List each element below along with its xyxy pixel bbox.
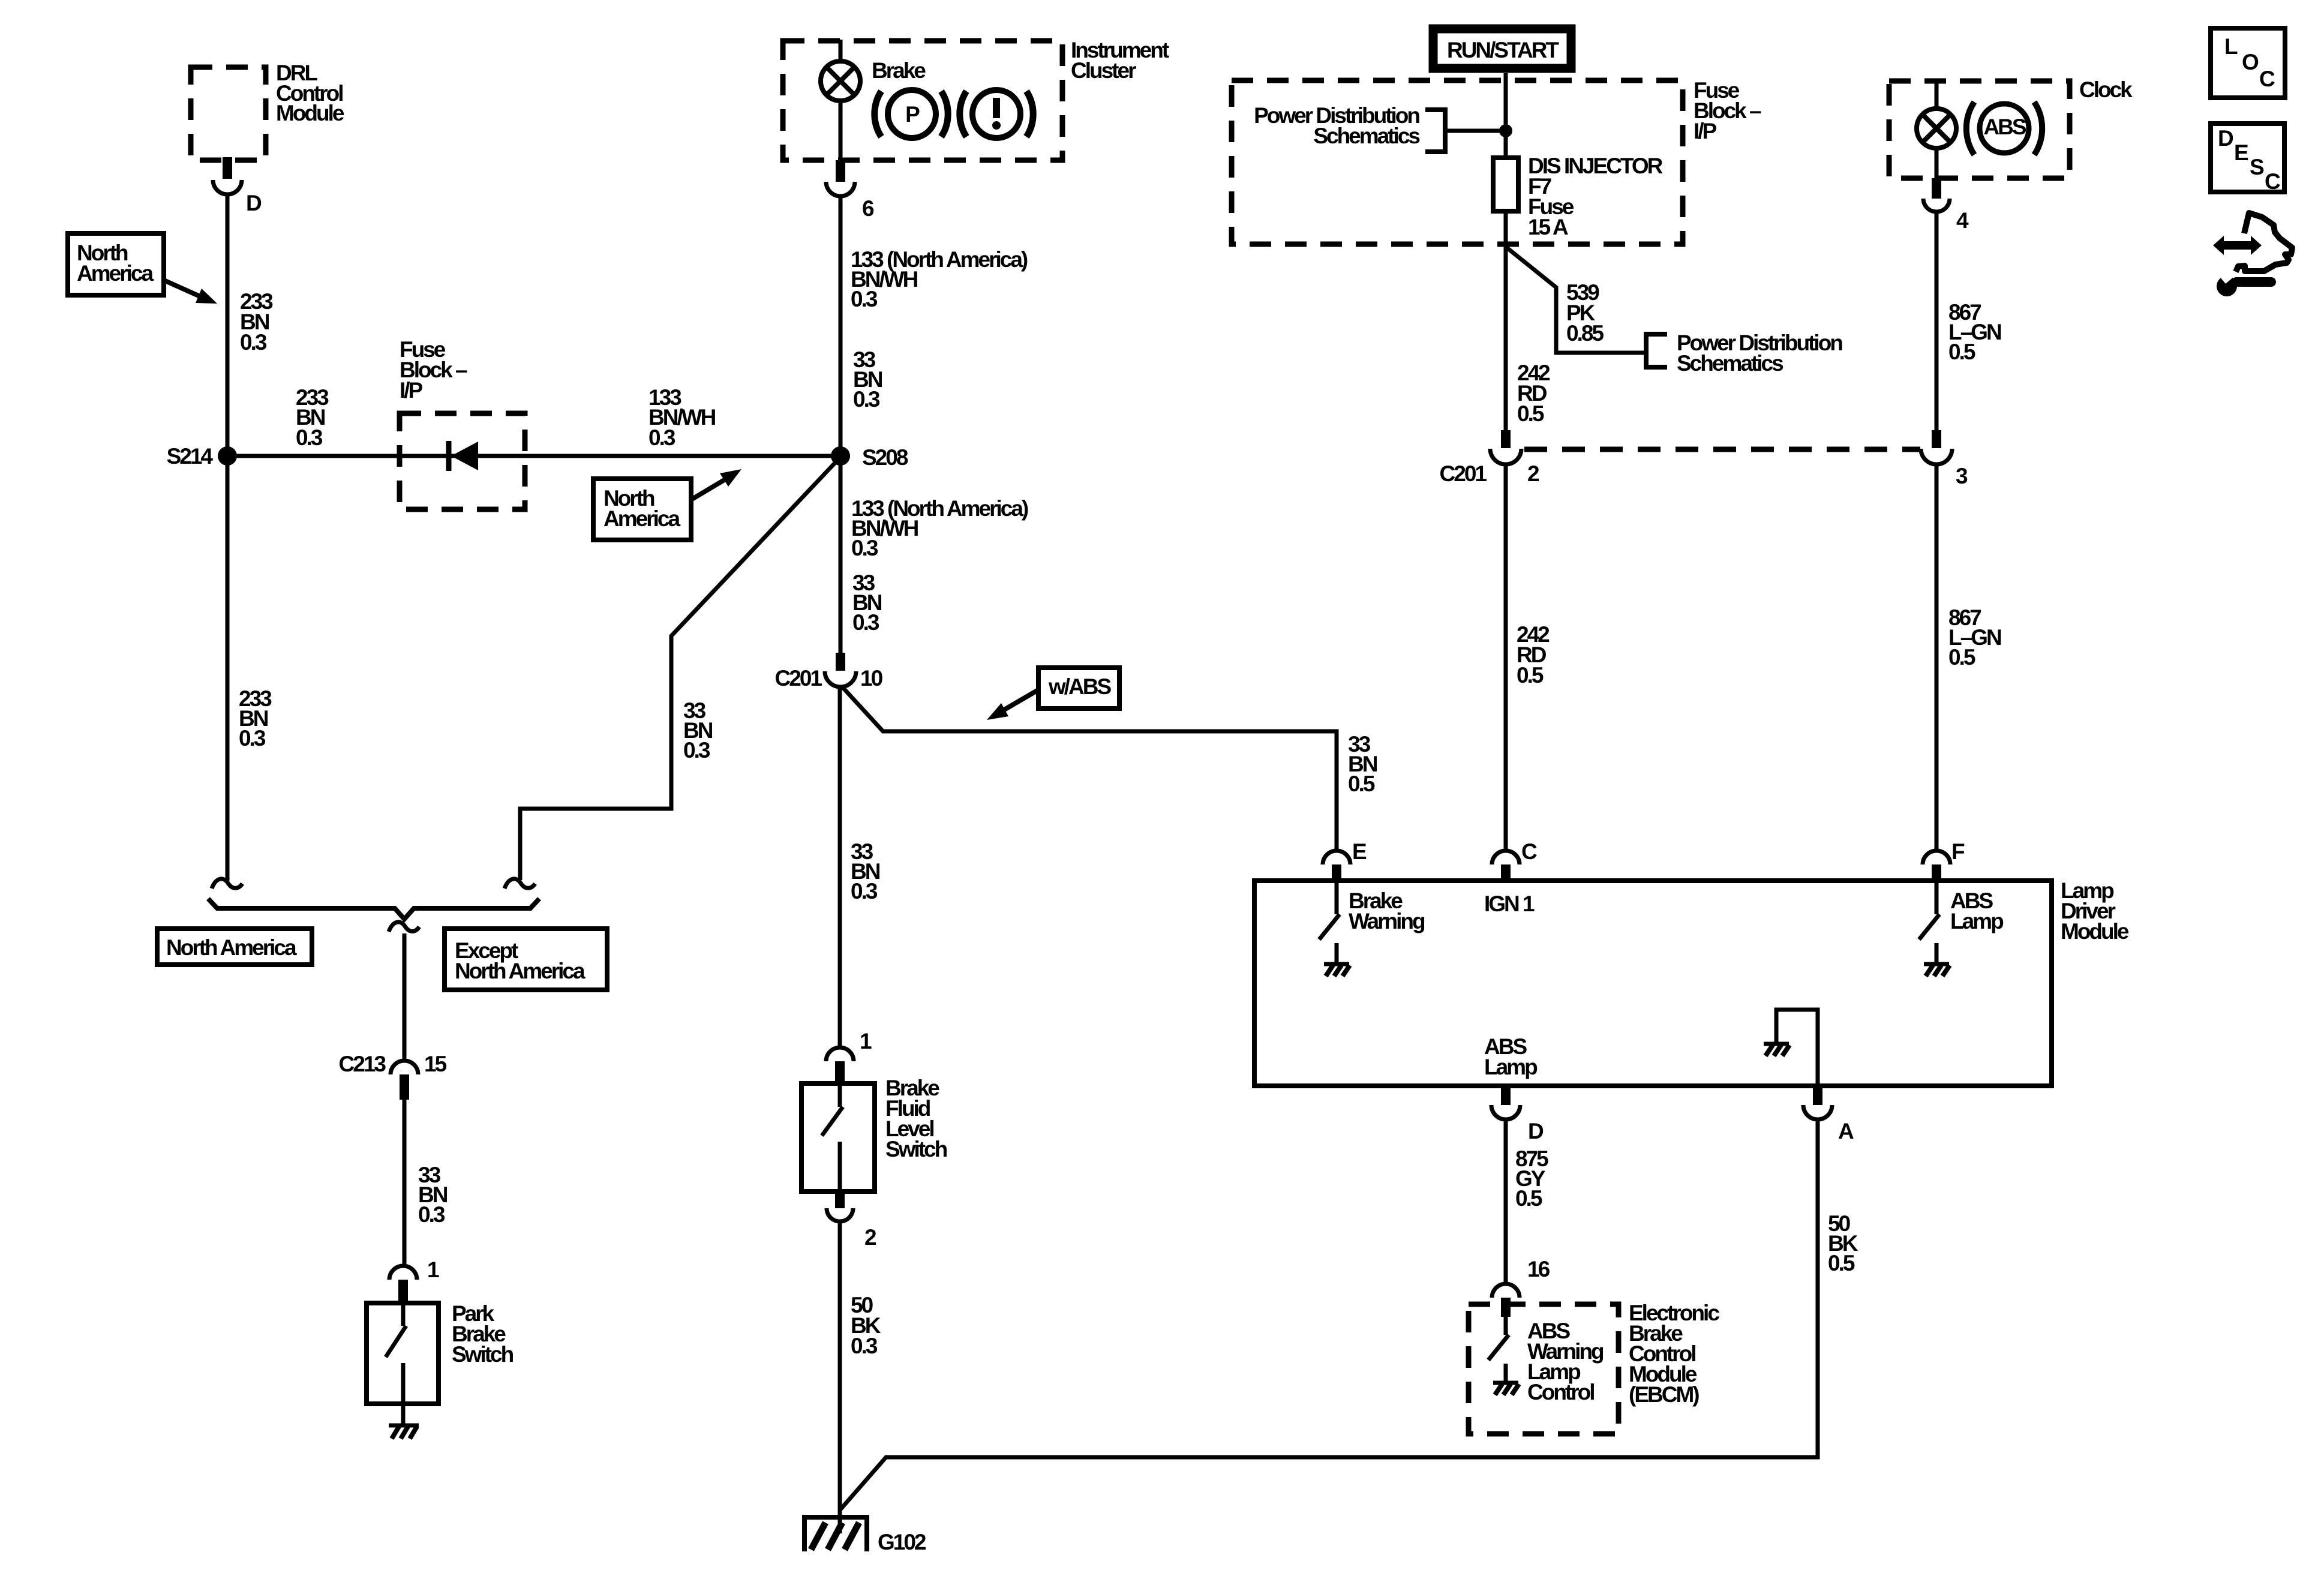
wire: D down to EBCM pin 16: [1504, 1119, 1508, 1284]
svg-text:C201: C201: [1440, 461, 1487, 486]
svg-text:0.3: 0.3: [648, 425, 675, 450]
wire: pin 6 down to S208: [839, 196, 843, 456]
internal ground branch (A output, inside LDM): [1764, 1010, 1818, 1085]
Except North America box: [445, 929, 607, 990]
svg-text:0.3: 0.3: [853, 387, 880, 412]
ground (Brake Warning, inside LDM): [1324, 964, 1350, 976]
svg-text:Switch: Switch: [452, 1342, 514, 1367]
svg-text:I/P: I/P: [400, 378, 423, 403]
svg-text:E: E: [2234, 140, 2248, 165]
wire: clock top stub to lamp: [1935, 80, 1939, 110]
wire: lamp to cluster box bottom: [839, 100, 843, 160]
connector C201 pin 2: [1440, 430, 1539, 486]
DRL Control Module: [191, 61, 344, 160]
wire: pin 4 down to connector 3: [1935, 212, 1939, 430]
connector E (Lamp Driver Module): [1323, 839, 1367, 882]
wire: RUN/START down into fuse block: [1504, 73, 1508, 158]
wire: cluster top stub to Brake lamp: [839, 40, 843, 62]
splice brace (options merge): [208, 899, 539, 919]
svg-text:C: C: [1521, 839, 1537, 864]
svg-text:Schematics: Schematics: [1677, 351, 1783, 376]
label 242 RD 0.5 (below C201): [1517, 622, 1550, 688]
label 875 GY 0.5: [1515, 1146, 1548, 1211]
svg-text:0.5: 0.5: [1948, 645, 1975, 670]
wire: pin 2 down to G102: [838, 1221, 842, 1533]
ground (Park Brake Switch): [389, 1404, 419, 1439]
svg-text:S: S: [2250, 155, 2264, 179]
svg-text:Cluster: Cluster: [1071, 58, 1136, 83]
svg-text:North America: North America: [455, 959, 585, 983]
svg-text:16: 16: [1527, 1257, 1550, 1281]
wire: A down and across to G102: [840, 1119, 1818, 1509]
Instrument Cluster: [783, 38, 1169, 160]
wire: C201 pin 10 down to Brake Fluid Level Switch: [838, 687, 842, 1047]
svg-text:D: D: [1528, 1119, 1544, 1143]
wire: S214 to S208: [227, 454, 840, 458]
svg-text:RUN/START: RUN/START: [1447, 38, 1559, 62]
connector C201 pin 10: [775, 653, 883, 691]
connector C (Lamp Driver Module): [1492, 839, 1537, 882]
svg-text:0.5: 0.5: [1517, 401, 1544, 426]
svg-text:0.3: 0.3: [852, 610, 879, 635]
svg-text:0.3: 0.3: [851, 1334, 878, 1358]
svg-text:Lamp: Lamp: [1950, 909, 2004, 933]
svg-text:15: 15: [424, 1052, 447, 1076]
svg-text:Switch: Switch: [885, 1137, 947, 1161]
wire: C213 to Park Brake Switch: [403, 1100, 407, 1266]
park brake indicator icon (P): [875, 90, 948, 138]
label 33 BN 0.3 (diagonal branch): [683, 698, 713, 763]
DESC reference box: [2211, 124, 2284, 194]
w/ABS callout: [987, 668, 1119, 720]
svg-text:0.85: 0.85: [1566, 321, 1604, 346]
Lamp Driver Module: [1254, 878, 2129, 1086]
Power Distribution Schematics reference (left): [1254, 103, 1512, 154]
svg-text:S208: S208: [862, 445, 908, 470]
vehicle navigation icon (arrow, car outline, wrench): [2213, 213, 2292, 296]
svg-text:0.5: 0.5: [1948, 340, 1975, 364]
Brake Warning switch (inside LDM): [1319, 882, 1425, 964]
connector D (Lamp Driver Module): [1491, 1086, 1544, 1143]
svg-text:0.3: 0.3: [240, 330, 267, 355]
svg-text:0.3: 0.3: [851, 536, 878, 560]
wire: fuse down to C201 pin 2: [1504, 211, 1508, 430]
svg-text:1: 1: [860, 1029, 872, 1053]
node S208 (splice): [831, 445, 908, 470]
svg-text:0.5: 0.5: [1828, 1251, 1855, 1275]
svg-text:Warning: Warning: [1349, 909, 1425, 933]
svg-text:0.3: 0.3: [851, 287, 878, 311]
svg-text:America: America: [77, 261, 154, 286]
svg-text:Module: Module: [2061, 919, 2129, 944]
Brake indicator lamp: [821, 58, 926, 101]
svg-text:D: D: [2218, 126, 2233, 151]
svg-text:(EBCM): (EBCM): [1629, 1382, 1699, 1407]
C201 harness dashed interconnect line: [1524, 447, 1920, 452]
label 233 BN 0.3 (DRL wire): [240, 289, 273, 355]
svg-text:ABS: ABS: [1983, 115, 2026, 139]
wire: S208 down to C201 pin 10: [839, 456, 843, 653]
svg-text:0.3: 0.3: [851, 879, 878, 903]
Clock: [1889, 77, 2133, 178]
svg-text:P: P: [905, 102, 920, 127]
connector pin 6 (Instrument Cluster): [826, 160, 874, 221]
connector pin 16 (EBCM): [1492, 1257, 1550, 1317]
label 50 BK 0.5: [1828, 1211, 1858, 1275]
brake fluid level switch contacts: [822, 1085, 843, 1191]
svg-text:G102: G102: [878, 1530, 926, 1554]
connector pin 1 (Brake Fluid Level Switch): [826, 1029, 872, 1085]
squiggle below brace: [389, 922, 419, 932]
ABS Warning Lamp Control switch (inside EBCM): [1488, 1316, 1604, 1404]
svg-text:3: 3: [1956, 464, 1968, 488]
svg-text:10: 10: [860, 666, 883, 691]
brake warning indicator icon (!): [960, 90, 1033, 138]
svg-text:0.3: 0.3: [418, 1202, 445, 1227]
connector C213 pin 15: [339, 1052, 447, 1100]
svg-text:L: L: [2224, 34, 2238, 59]
ground G102: [802, 1517, 926, 1554]
svg-text:C213: C213: [339, 1052, 386, 1076]
label 242 RD 0.5 (above C201): [1517, 361, 1550, 426]
svg-text:Control: Control: [1527, 1380, 1594, 1404]
svg-text:S214: S214: [167, 444, 214, 469]
North America callout (upper left): [68, 233, 217, 304]
ground (ABS Lamp, inside LDM): [1924, 964, 1950, 976]
node S214 (splice): [167, 444, 237, 469]
connector F (Lamp Driver Module): [1923, 839, 1965, 882]
svg-text:15 A: 15 A: [1528, 215, 1568, 239]
label 867 L-GN 0.5 (above connector 3): [1948, 300, 2001, 364]
Electronic Brake Control Module (EBCM) dashed box: [1469, 1301, 1719, 1434]
label 33 BN 0.3 (brake fluid wire): [851, 839, 880, 903]
svg-text:0.3: 0.3: [683, 738, 710, 763]
svg-text:I/P: I/P: [1694, 119, 1717, 143]
svg-text:0.3: 0.3: [296, 425, 323, 450]
svg-text:1: 1: [427, 1257, 439, 1282]
wire: lamp to clock box bottom: [1935, 147, 1939, 178]
label 33 BN 0.3 (above S208): [853, 347, 882, 412]
svg-text:C201: C201: [775, 666, 822, 691]
North America callout (pointing to S208): [593, 469, 741, 540]
clock ABS lamp: [1917, 109, 1956, 148]
Power Distribution Schematics reference (right): [1646, 331, 1842, 376]
svg-text:North America: North America: [166, 935, 297, 960]
ABS indicator icon (clock): [1966, 102, 2042, 155]
RUN/START power feed box: [1433, 29, 1571, 68]
svg-text:C: C: [2265, 169, 2280, 194]
Fuse Block - I/P (diode box): [400, 337, 525, 509]
diode (inside fuse block): [449, 441, 478, 471]
Park Brake Switch: [367, 1301, 514, 1404]
svg-text:2: 2: [864, 1225, 876, 1250]
label 33 BN 0.3 (below S208): [852, 571, 882, 635]
svg-text:2: 2: [1527, 461, 1539, 486]
Fuse Block - I/P (large): [1232, 78, 1761, 244]
connector D (DRL Control Module pin D): [213, 157, 262, 215]
label 233 BN 0.3 (S214 wire): [296, 385, 329, 450]
wire end squiggle (left, North America): [212, 879, 242, 888]
svg-text:O: O: [2242, 50, 2259, 74]
label 539 PK 0.85: [1566, 280, 1604, 346]
svg-text:IGN 1: IGN 1: [1484, 891, 1535, 916]
svg-text:0.3: 0.3: [239, 726, 266, 751]
label 867 L-GN 0.5 (below connector 3): [1948, 605, 2001, 670]
ABS Lamp output label (inside LDM bottom): [1484, 1034, 1538, 1079]
svg-text:E: E: [1352, 839, 1367, 864]
wire: brace to C213: [403, 933, 407, 1061]
wire: C201 pin 2 down to connector C: [1504, 464, 1508, 851]
wire: w/ABS branch from C201 pin 10 to connector E: [842, 686, 1337, 851]
LOC reference box: [2211, 28, 2285, 98]
svg-text:Lamp: Lamp: [1484, 1055, 1538, 1079]
svg-text:D: D: [246, 191, 262, 215]
connector pin 4 (Clock): [1923, 178, 1969, 233]
label 133 BN/WH 0.3 (between fuse block and S208): [648, 385, 716, 450]
svg-text:Module: Module: [276, 101, 344, 125]
svg-text:Clock: Clock: [2079, 77, 2133, 102]
fuse F7 DIS INJECTOR 15 A: [1493, 154, 1663, 239]
North America box (bottom): [157, 929, 312, 965]
label 133 (North America) BN/WH 0.3 (below S208): [851, 496, 1028, 560]
wire: 539 PK branch to Power Distribution Schematics: [1507, 248, 1646, 353]
label 233 BN 0.3 (below S214): [239, 686, 272, 751]
wire: DRL pin D down to S214 and below (233 BN circuit): [226, 194, 230, 881]
connector pin 2 (Brake Fluid Level Switch): [827, 1191, 876, 1250]
svg-text:0.5: 0.5: [1517, 663, 1544, 688]
label 50 BK 0.3: [851, 1293, 881, 1358]
label 133 (North America) BN/WH 0.3 (above S208): [851, 247, 1028, 311]
park brake switch contacts: [386, 1305, 406, 1404]
connector A (Lamp Driver Module): [1803, 1086, 1854, 1143]
svg-text:Brake: Brake: [872, 58, 926, 83]
wire end squiggle (right, Except North America): [505, 879, 535, 888]
label 33 BN 0.3 (park brake wire): [418, 1163, 448, 1227]
ABS Lamp switch (inside LDM): [1919, 882, 2004, 964]
svg-text:0.5: 0.5: [1515, 1186, 1542, 1211]
svg-text:w/ABS: w/ABS: [1048, 674, 1112, 699]
svg-text:6: 6: [862, 196, 874, 221]
svg-text:America: America: [603, 506, 680, 531]
wire: S208 diagonal down-left branch (Except North America path): [520, 457, 840, 880]
connector pin 3 (C201): [1921, 430, 1968, 488]
wire: connector 3 down to connector F: [1935, 464, 1939, 851]
svg-text:F: F: [1951, 839, 1965, 864]
svg-text:C: C: [2259, 67, 2275, 91]
svg-text:0.5: 0.5: [1348, 772, 1375, 796]
Brake Fluid Level Switch: [801, 1076, 947, 1191]
ground (ABS Warning Lamp Control): [1493, 1383, 1519, 1395]
svg-text:A: A: [1838, 1119, 1854, 1143]
svg-text:Schematics: Schematics: [1313, 124, 1420, 148]
connector pin 1 (Park Brake Switch): [389, 1257, 439, 1305]
label 33 BN 0.5 (w/ABS wire): [1348, 732, 1377, 796]
